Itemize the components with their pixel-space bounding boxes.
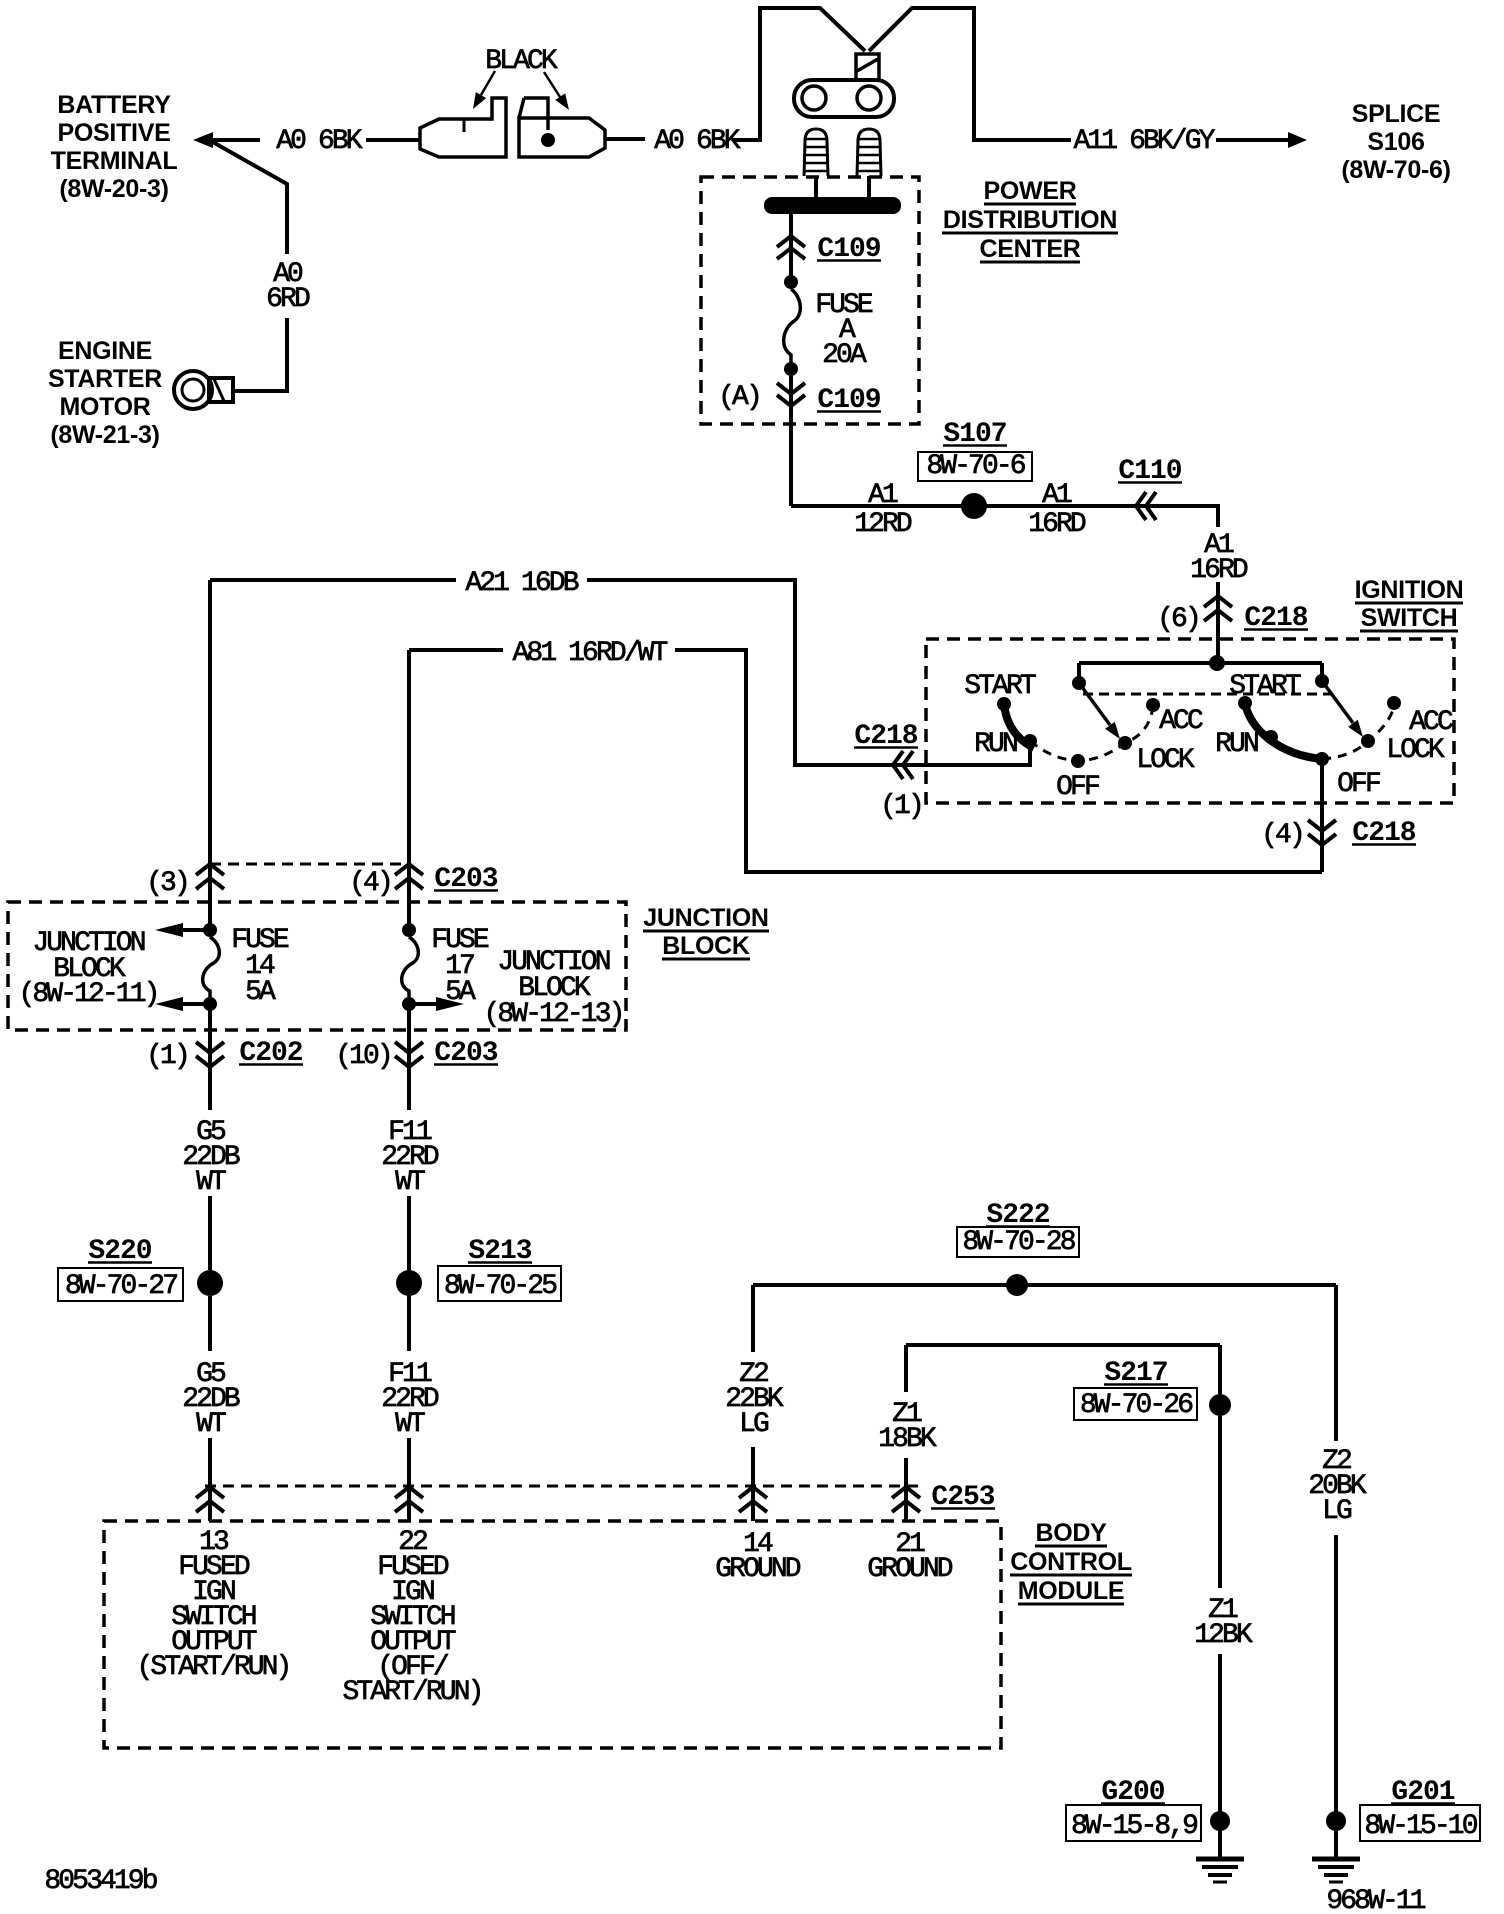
terminal coil right [857,129,881,176]
wire F11 to splice S213 [407,1196,411,1270]
connector C203 pin 4 [395,864,423,875]
fuse A 20A [784,289,801,362]
svg-text:WT: WT [196,1167,226,1198]
connector C202 pin 1 [196,1042,224,1053]
power distribution center dashed box [701,177,919,424]
svg-text:DISTRIBUTION: DISTRIBUTION [943,206,1117,234]
wire A21 16DB left segment [210,578,456,582]
svg-text:WT: WT [196,1409,226,1440]
svg-text:8W-70-6: 8W-70-6 [926,451,1024,482]
connector C109 (bottom) [777,383,805,394]
svg-text:(1): (1) [880,791,922,822]
connector C110 [1136,492,1146,520]
contact START (right) [1238,696,1252,710]
svg-text:12RD: 12RD [854,509,912,540]
svg-text:(8W-12-11): (8W-12-11) [18,979,157,1010]
svg-text:A0 6BK: A0 6BK [654,126,741,157]
wire A21 16DB right segment to C218 pin 1 [587,580,1030,765]
contact OFF (right) [1315,752,1329,766]
wire Z1 rail [906,1343,1220,1347]
left wiper arrow [1105,722,1120,739]
svg-text:A1: A1 [1042,480,1072,511]
svg-text:ENGINE: ENGINE [58,337,152,365]
svg-text:START/RUN): START/RUN) [342,1677,481,1708]
svg-text:ACC: ACC [1409,707,1453,738]
connector C203 dashed gang line [210,863,409,866]
arrow fuse14 top to junction block [155,923,183,937]
junction dot ignition rail [1209,655,1225,671]
svg-text:(8W-70-6): (8W-70-6) [1341,156,1450,184]
svg-text:8W-70-25: 8W-70-25 [444,1271,557,1302]
engine starter motor ring terminal [174,371,212,409]
PDC bus bar [764,197,901,214]
svg-text:968W-11: 968W-11 [1326,1886,1425,1914]
wire Z2 22BK LG to BCM pin 14 [751,1285,755,1352]
fuse 14 5A [203,937,220,997]
svg-text:BLACK: BLACK [485,46,558,77]
svg-text:(10): (10) [335,1041,391,1072]
svg-text:LG: LG [1322,1496,1352,1527]
svg-text:8W-70-27: 8W-70-27 [65,1271,177,1302]
mechanical link dashed [1083,693,1332,696]
wire ignition feed rail [1079,661,1322,665]
svg-text:A0 6BK: A0 6BK [276,126,363,157]
wire A11 6BK/GY up and over from stud [869,8,1071,140]
svg-text:8W-15-8,9: 8W-15-8,9 [1071,1811,1197,1842]
svg-text:(6): (6) [1157,604,1199,635]
ground G201 [1326,1811,1346,1831]
svg-text:CENTER: CENTER [980,235,1081,263]
connector C253 pin 14 [739,1487,767,1498]
svg-text:LOCK: LOCK [1136,745,1195,776]
connector C253 pin 22 [395,1487,423,1498]
wire G5 to splice S220 [208,1196,212,1270]
wire G5 to BCM pin 13 [208,1438,212,1521]
contact RUN (right) [1264,730,1278,744]
ignition switch dashed box [926,639,1454,803]
contact ACC (left) [1146,698,1160,712]
terminal coil left [804,129,828,176]
wire Z2 20BK LG to ground G201 [1334,1285,1338,1441]
wire A0 6RD diagonal to starter motor [211,141,287,254]
wire A21 drop to junction block [208,580,212,930]
splice S213 [396,1270,422,1296]
svg-text:(4): (4) [349,868,391,899]
wire into ignition switch [1216,582,1220,664]
svg-text:LG: LG [739,1409,769,1440]
svg-text:GROUND: GROUND [715,1554,801,1585]
connector half (male) A0 6BK [420,98,506,157]
svg-text:(8W-21-3): (8W-21-3) [50,421,159,449]
svg-text:POWER: POWER [984,177,1077,205]
svg-text:BLOCK: BLOCK [662,932,750,960]
svg-text:OFF: OFF [1337,769,1380,800]
arrow fuse14 bottom to junction block [155,997,183,1011]
wire A0 6BK from battery terminal [212,138,260,142]
svg-text:8W-15-10: 8W-15-10 [1364,1811,1477,1842]
right detent dashed arc [1322,706,1394,759]
connector C218 pin 4 [1308,820,1336,831]
svg-text:RUN: RUN [1215,729,1258,760]
junction dot fuse 17 bottom [402,997,416,1011]
junction dot fuse 14 bottom [203,997,217,1011]
connector C253 dashed gang line [205,1485,925,1488]
wire from fuse A to C109 (A) [789,376,793,506]
svg-text:TERMINAL: TERMINAL [51,147,178,175]
battery terminal lug [794,80,894,117]
svg-text:A11 6BK/GY: A11 6BK/GY [1073,126,1215,157]
wire A1 12RD [791,506,1218,527]
wire A81 16RD/WT right segment [675,650,1322,872]
wire A81 16RD/WT left segment [409,648,503,652]
svg-text:START: START [964,671,1036,702]
svg-text:POSITIVE: POSITIVE [58,119,171,147]
svg-text:ACC: ACC [1159,706,1203,737]
connector C203 pin 3 [196,864,224,875]
svg-text:S106: S106 [1367,128,1424,156]
splice S217 [1218,1345,1222,1394]
wire G5 below S220 [208,1296,212,1351]
connector C218 pin 1 [893,751,903,779]
connector C203 pin 10 [395,1042,423,1053]
svg-text:A81 16RD/WT: A81 16RD/WT [513,638,668,669]
arrowhead to splice S106 [1288,132,1307,148]
junction dot fuse 14 top [203,923,217,937]
splice S220 [197,1270,223,1296]
svg-text:BODY: BODY [1035,1519,1107,1547]
svg-text:START: START [1229,671,1301,702]
svg-text:JUNCTION: JUNCTION [643,904,768,932]
junction block dashed box [8,902,626,1030]
svg-text:MOTOR: MOTOR [59,393,150,421]
svg-text:20A: 20A [822,340,867,371]
svg-text:8W-70-28: 8W-70-28 [962,1227,1074,1258]
svg-text:OFF: OFF [1056,772,1099,803]
contact START (left) [997,697,1011,711]
svg-text:(4): (4) [1261,820,1303,851]
arrow fuse17 bottom to junction block right [436,997,464,1011]
wire A0 6BK up and over to stud [733,8,865,140]
contact RUN (left) [1023,734,1037,748]
wire F11 to BCM pin 22 [407,1438,411,1521]
wire A11 6BK/GY to splice S106 [1216,138,1290,142]
svg-text:GROUND: GROUND [867,1554,953,1585]
svg-text:16RD: 16RD [1028,509,1086,540]
svg-text:A1: A1 [868,480,898,511]
svg-text:(8W-12-13): (8W-12-13) [483,999,622,1030]
svg-text:SWITCH: SWITCH [1361,604,1458,632]
wire OFF contact down to C218 pin 4 [1320,759,1324,872]
svg-text:MODULE: MODULE [1018,1577,1125,1605]
connector C109 (top) [777,236,805,247]
wire fuse 14 out to C202 [208,1004,212,1110]
svg-text:(A): (A) [718,382,760,413]
svg-text:16RD: 16RD [1190,555,1248,586]
wire to engine starter motor [233,318,287,391]
junction dot below fuse A [784,362,798,376]
wire A0 6BK from connector [605,137,645,141]
svg-text:5A: 5A [245,977,276,1008]
svg-text:18BK: 18BK [878,1424,937,1455]
svg-text:(8W-20-3): (8W-20-3) [59,175,168,203]
connector half (female) A0 6BK [519,118,605,157]
wire A81 drop to junction block [407,650,411,930]
wire F11 below S213 [407,1296,411,1351]
svg-text:LOCK: LOCK [1386,735,1445,766]
left switch wiper arc START-RUN [1004,704,1034,748]
svg-text:(1): (1) [146,1041,188,1072]
wire A0 6BK into connector [366,138,420,142]
wire Z1 12BK to ground G200 [1218,1416,1222,1588]
svg-text:RUN: RUN [974,729,1017,760]
right wiper pivot dot [1315,674,1329,688]
svg-text:WT: WT [395,1409,425,1440]
left wiper pivot dot [1072,676,1086,690]
svg-text:12BK: 12BK [1194,1620,1253,1651]
right switch wiper arc START-OFF [1245,703,1322,759]
connector C253 pin 21 [892,1487,920,1498]
svg-text:8W-70-26: 8W-70-26 [1080,1390,1192,1421]
junction dot above fuse A [784,275,798,289]
arrow to left connector [473,92,486,109]
connector C218 pin 6 [1204,596,1232,607]
contact OFF (left) [1071,754,1085,768]
contact ACC (right) [1387,696,1401,710]
connector C253 pin 13 [196,1487,224,1498]
fuse 17 5A [402,923,416,937]
splice S107 [961,493,987,519]
wire Z2 ground rail [753,1283,1336,1287]
svg-text:IGNITION: IGNITION [1355,576,1464,604]
arrowhead to battery positive terminal [193,132,213,148]
right wiper arrow [1348,720,1363,737]
contact LOCK (left) [1118,736,1132,750]
svg-text:BATTERY: BATTERY [57,91,171,119]
ground G200 [1210,1811,1230,1831]
svg-text:6RD: 6RD [266,284,310,315]
stubs from coils to bus bar [814,176,818,197]
arrow to right connector [555,93,569,110]
svg-text:(START/RUN): (START/RUN) [137,1652,290,1683]
svg-text:(3): (3) [146,868,188,899]
svg-text:8053419b: 8053419b [44,1866,156,1897]
wire RUN contact to C218 pin 1 [795,741,1030,765]
svg-text:SPLICE: SPLICE [1352,100,1441,128]
wire fuse 17 out to C203 [407,1004,411,1110]
battery stud bolt [856,54,879,80]
contact LOCK (right) [1361,734,1375,748]
svg-text:WT: WT [395,1167,425,1198]
wire Z1 18BK to BCM pin 21 [904,1345,908,1392]
wire from bus bar to C109 [789,214,793,276]
svg-text:STARTER: STARTER [48,365,162,393]
left detent dashed arc [1030,706,1153,761]
svg-text:CONTROL: CONTROL [1010,1548,1132,1576]
body control module dashed box [104,1521,1001,1748]
svg-text:A21 16DB: A21 16DB [465,568,578,599]
